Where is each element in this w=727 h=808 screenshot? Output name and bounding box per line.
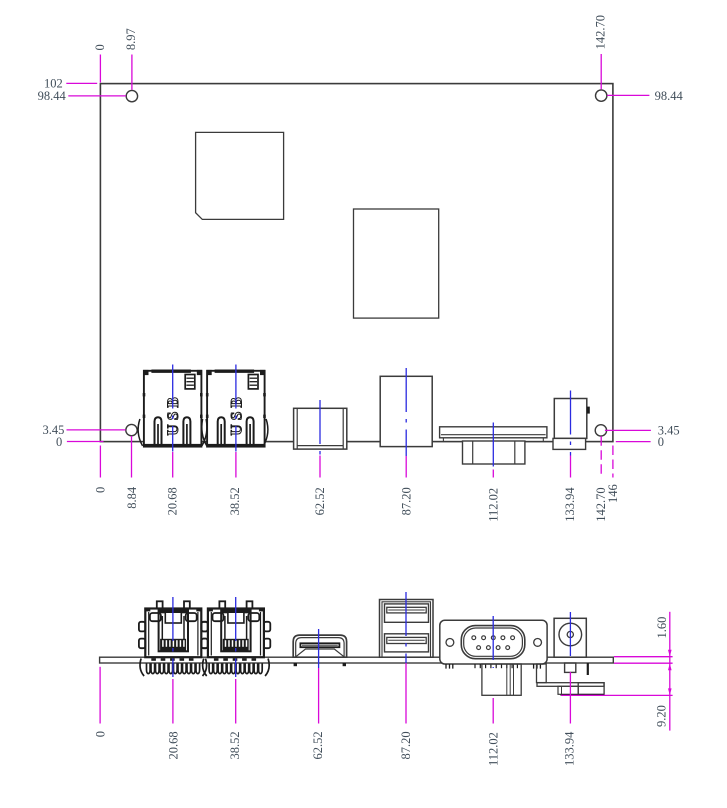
svg-text:0: 0 [93,44,107,50]
HDMI connector J3 (top view) [294,408,347,449]
extension line 146 (top view bottom) [612,446,614,478]
svg-text:8.97: 8.97 [124,28,138,50]
centerline J3 [319,400,321,456]
DC jack J6 pin nub [587,407,590,414]
RJ45 LAN2 top tabs [219,601,252,608]
extension line 8.84 (top view bottom) [131,436,133,478]
svg-text:112.02: 112.02 [486,732,500,766]
RJ45 LAN1 under-body pads [151,658,193,661]
HDMI solder feet [294,663,297,666]
centerline J4 [405,368,407,456]
DB9 connector J5 flange (top view) [440,427,547,438]
extension line PCB top (right) [614,656,673,658]
RJ45 LAN2 body (side view) [207,608,264,657]
centerline DC jack (side) [569,612,571,660]
chip U2 (rectangle) [354,209,439,318]
bracket bar (below PCB) [537,683,604,687]
svg-text:62.52: 62.52 [313,487,327,515]
USB stack (side view) upper port [385,604,429,622]
centerline DB9 (side) [492,616,494,668]
centerline J5 [492,423,494,470]
svg-text:USB: USB [228,393,245,435]
svg-text:38.52: 38.52 [228,731,242,759]
RJ45 LAN2 jack opening [221,610,250,651]
DC jack J6 base (top view) [553,438,586,449]
svg-text:20.68: 20.68 [166,731,180,759]
dimension line 98.44 (left) [68,95,126,97]
extension line 133.94 (side view bottom) [569,672,571,724]
extension line 133.94 (top view bottom) [570,456,572,478]
DB9 connector (side view) shell [440,620,547,664]
dimension line 98.44 (right) [607,94,649,96]
svg-text:1.60: 1.60 [655,617,669,639]
svg-text:142.70: 142.70 [594,15,608,49]
svg-text:112.02: 112.02 [487,488,501,522]
mounting hole bottom-right [595,425,606,436]
dimension line vertical (right) [669,612,671,731]
extension line 87.20 (side view bottom) [405,663,407,724]
board outline (top view) [100,84,613,442]
svg-text:62.52: 62.52 [311,731,325,759]
RJ45 LAN1 contact pins [160,639,186,651]
extension line 62.52 (top view bottom) [319,456,321,478]
DB9 connector J5 body (top view) [443,438,543,464]
svg-text:146: 146 [606,484,620,503]
extension line 0 (side view bottom) [99,667,101,724]
USB connector J1 left pin [155,417,162,445]
centerline HDMI (side) [318,629,320,668]
svg-text:38.52: 38.52 [228,487,242,515]
centerline J2 [235,365,237,452]
RJ45 LAN2 through-hole pin loops [209,663,262,673]
extension line PCB bottom (right) [614,662,673,664]
wire hook left of J1 [138,419,142,446]
extension line 20.68 (side view bottom) [172,679,174,724]
svg-text:20.68: 20.68 [166,487,180,515]
arrowheads on dimension line [668,650,672,696]
DC jack center pin [567,631,573,637]
PCB strip (side view) [100,657,614,663]
centerline USB stack (side) [405,592,407,663]
RJ45 LAN2 LED windows [213,613,260,621]
extension line 112.02 (side view bottom) [492,698,494,724]
svg-text:9.20: 9.20 [654,705,668,727]
svg-text:133.94: 133.94 [562,731,576,766]
DC jack right leg [587,663,589,675]
svg-text:133.94: 133.94 [563,487,577,522]
bracket bottom edge [561,694,605,696]
HDMI connector (side view) slot [300,643,339,647]
RJ45 LAN1 end hooks [140,659,207,677]
extension line 87.20 (top view bottom) [405,456,407,478]
extension line 0 (top view bottom) [99,446,101,478]
extension line 62.52 (side view bottom) [318,668,320,724]
dimension line x=0 (top) [99,55,101,83]
svg-text:0: 0 [56,435,62,449]
bracket step [558,686,578,694]
RJ45 LAN1 top tabs [157,601,190,608]
wire hooks between J1 and J2 [202,419,207,446]
USB connector J2 left pin [218,417,225,445]
mounting hole bottom-left [126,424,137,435]
dimension line x=8.97 (top) [131,55,133,90]
HDMI connector (side view) chamfers [296,649,344,657]
RJ45 LAN2 end hooks [203,659,270,677]
dimension line 102 (left) [66,82,97,84]
dimension line 3.45 (right) [605,429,651,431]
DC jack (side view) body [554,618,586,657]
extension line 38.52 (side view bottom) [235,679,237,724]
USB connector J1 right pin [183,417,190,445]
centerline LAN2 (side) [235,597,237,677]
USB stack (side view) shell [380,600,434,658]
dimension line 3.45 (left) [67,429,126,431]
mounting hole top-right [596,90,607,101]
DC jack left leg [565,663,576,672]
extension line 20.68 (top view bottom) [172,452,174,478]
DB9 rear housing (below PCB) [482,664,521,695]
svg-text:0: 0 [94,731,108,737]
RJ45 LAN2 contact pins [223,639,249,651]
extension line bracket bottom (right) [561,694,673,696]
centerline J6 [570,391,572,456]
DC jack J6 body (top view) [554,399,587,439]
USB stack connector J4 (top view) [380,376,432,446]
USB connector J2 body (top view) [206,370,266,447]
HDMI connector (side view) body [293,635,346,657]
DB9 mounting feet [446,664,540,669]
USB connector J2 right pin [247,417,254,445]
bracket strip right of DB9 [537,664,547,683]
RJ45 LAN1 LED windows [150,613,197,621]
DB9 pins row 2 [477,646,510,650]
svg-text:98.44: 98.44 [655,89,684,103]
svg-text:0: 0 [658,435,664,449]
DB9 pin comb [475,664,517,668]
svg-text:87.20: 87.20 [399,487,413,515]
chip U1 (chamfered square) [196,132,284,219]
svg-text:USB: USB [165,393,182,435]
DB9 screw hole left [446,639,454,647]
svg-text:8.84: 8.84 [125,486,139,509]
RJ45 LAN1 through-hole pin loops [147,663,200,673]
USB connector J2 rear contact box [248,375,258,389]
USB connector J1 rear contact box [185,375,195,389]
USB connector J1 body (top view) [143,370,203,447]
mounting hole top-left [126,90,137,101]
DB9 pins row 1 [472,636,515,640]
RJ45 LAN1 side ears [139,622,208,648]
RJ45 LAN2 under-body pads [214,658,256,661]
extension line 142.70 (top view bottom) [600,436,602,477]
dimension line 0 (bottom right) [616,441,651,443]
dimension line x=142.70 (top) [600,54,602,89]
RJ45 LAN2 side ears [202,622,271,648]
RJ45 LAN1 jack opening [159,610,188,651]
centerline LAN1 (side) [172,597,174,677]
DB9 connector (side view) D-sub outline [461,626,525,659]
HDMI connector (side view) inner outline [296,638,344,657]
DB9 screw hole right [534,639,542,647]
centerline J1 [172,365,174,452]
DC jack barrel circle [559,623,582,646]
extension line 112.02 (top view bottom) [492,470,494,478]
wire hook right of J2 [263,419,267,446]
svg-text:87.20: 87.20 [399,731,413,759]
extension line 38.52 (top view bottom) [235,452,237,478]
USB stack (side view) lower port [385,634,429,652]
svg-text:98.44: 98.44 [38,89,67,103]
dimension line 0 (bottom left) [67,441,104,443]
RJ45 LAN1 body (side view) [145,608,202,657]
bracket block (below PCB) [578,683,604,695]
svg-text:0: 0 [93,487,107,493]
